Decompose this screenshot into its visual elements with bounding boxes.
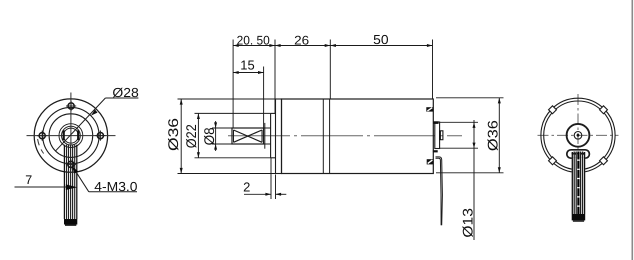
svg-text:Ø28: Ø28 [112,85,138,100]
svg-text:50: 50 [373,32,388,47]
svg-text:Ø36: Ø36 [485,120,501,151]
svg-text:Ø13: Ø13 [460,208,476,238]
svg-text:15: 15 [240,58,254,73]
svg-text:20. 50: 20. 50 [237,33,270,47]
svg-text:Ø8: Ø8 [201,127,217,145]
svg-text:4-M3.0: 4-M3.0 [94,179,137,194]
svg-text:26: 26 [294,33,309,47]
svg-text:Ø22: Ø22 [183,124,199,148]
svg-text:7: 7 [25,173,32,187]
svg-text:Ø36: Ø36 [165,118,181,151]
svg-text:2: 2 [243,179,250,194]
